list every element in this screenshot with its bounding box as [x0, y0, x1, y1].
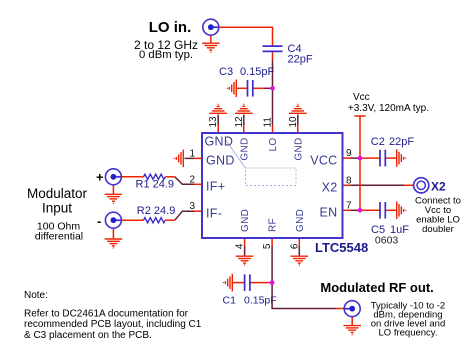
svg-text:C3: C3 — [219, 66, 233, 78]
svg-text:LTC5548: LTC5548 — [315, 240, 368, 255]
svg-text:LO frequency.: LO frequency. — [379, 328, 438, 339]
svg-text:& C3 placement on the PCB.: & C3 placement on the PCB. — [24, 330, 152, 341]
svg-text:R1 24.9: R1 24.9 — [136, 179, 175, 191]
svg-text:RF: RF — [268, 218, 279, 232]
svg-text:GND: GND — [239, 138, 250, 161]
svg-text:2: 2 — [189, 174, 195, 185]
svg-text:LO in.: LO in. — [149, 19, 192, 36]
svg-text:GND: GND — [293, 138, 304, 161]
svg-text:0.15pF: 0.15pF — [244, 295, 277, 307]
svg-text:-: - — [97, 214, 101, 229]
svg-text:GND: GND — [206, 154, 235, 168]
svg-text:13: 13 — [208, 116, 219, 128]
svg-text:Vcc: Vcc — [353, 92, 370, 103]
svg-text:11: 11 — [263, 117, 274, 128]
svg-text:22pF: 22pF — [389, 136, 414, 148]
svg-text:GND: GND — [295, 209, 306, 232]
svg-text:1: 1 — [189, 148, 195, 159]
svg-text:0.15pF: 0.15pF — [240, 66, 275, 78]
svg-text:VCC: VCC — [310, 154, 337, 168]
svg-text:differential: differential — [35, 230, 83, 242]
svg-text:IF-: IF- — [206, 206, 222, 220]
svg-text:GND: GND — [205, 134, 234, 148]
svg-text:0 dBm typ.: 0 dBm typ. — [139, 49, 193, 61]
svg-text:IF+: IF+ — [206, 180, 225, 194]
svg-text:recommended PCB layout, includ: recommended PCB layout, including C1 — [24, 319, 202, 330]
svg-text:10: 10 — [288, 116, 299, 128]
svg-text:4: 4 — [235, 243, 246, 249]
svg-text:9: 9 — [346, 148, 352, 159]
svg-text:7: 7 — [346, 200, 352, 211]
svg-text:3: 3 — [189, 201, 195, 212]
svg-text:6: 6 — [289, 243, 300, 249]
svg-text:5: 5 — [262, 243, 273, 249]
svg-text:Refer to DC2461A documentation: Refer to DC2461A documentation for — [24, 308, 189, 319]
svg-text:X2: X2 — [322, 181, 338, 195]
svg-text:22pF: 22pF — [288, 54, 313, 66]
svg-text:Input: Input — [42, 201, 72, 216]
svg-text:8: 8 — [346, 175, 352, 186]
svg-text:LO: LO — [268, 138, 279, 152]
svg-text:Modulated RF out.: Modulated RF out. — [320, 280, 433, 295]
svg-text:EN: EN — [320, 206, 338, 220]
svg-text:C2: C2 — [371, 136, 385, 148]
svg-text:0603: 0603 — [375, 234, 399, 246]
svg-text:R2 24.9: R2 24.9 — [137, 205, 176, 217]
svg-text:12: 12 — [234, 116, 245, 128]
svg-text:+: + — [96, 169, 104, 184]
svg-text:C1: C1 — [223, 295, 237, 307]
svg-text:+3.3V, 120mA typ.: +3.3V, 120mA typ. — [348, 103, 429, 114]
svg-text:X2: X2 — [431, 179, 446, 193]
svg-text:doubler: doubler — [422, 224, 454, 235]
svg-text:Note:: Note: — [24, 290, 48, 301]
svg-text:Modulator: Modulator — [27, 186, 88, 201]
svg-text:GND: GND — [240, 209, 251, 232]
